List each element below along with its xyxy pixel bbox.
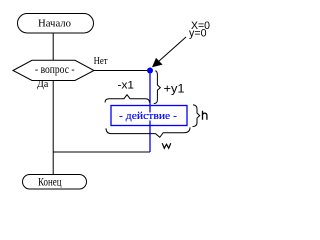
svg-text:y=0: y=0 [189, 28, 207, 40]
svg-text:Начало: Начало [38, 18, 71, 30]
svg-text:- действие -: - действие - [119, 111, 177, 122]
svg-text:-x1: -x1 [118, 80, 135, 92]
svg-text:- вопрос -: - вопрос - [35, 62, 75, 76]
svg-text:Да: Да [37, 79, 49, 90]
svg-text:Нет: Нет [94, 56, 109, 67]
svg-text:+y1: +y1 [164, 82, 185, 96]
svg-text:Конец: Конец [38, 174, 62, 188]
